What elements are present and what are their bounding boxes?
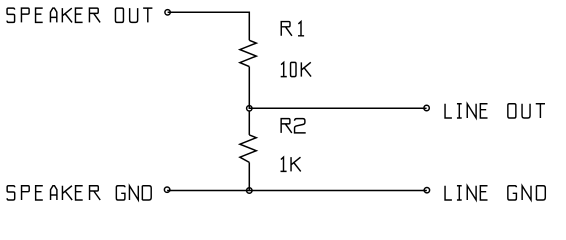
resistor R1 <box>240 40 256 66</box>
terminal SPEAKER OUT <box>165 10 172 15</box>
label LINE OUT <box>445 104 545 118</box>
label 10K <box>281 62 311 76</box>
label LINE GND <box>445 186 545 200</box>
terminal LINE OUT <box>423 105 430 110</box>
label SPEAKER GND <box>7 186 151 200</box>
wire SPEAKER OUT terminal to R1 (right then down) <box>171 12 250 40</box>
label 1K <box>281 157 301 171</box>
wire node A to R2 <box>248 108 250 135</box>
ground wire SPEAKER GND to LINE GND <box>170 190 424 192</box>
wire node A to LINE OUT terminal <box>249 107 423 109</box>
wire R1 to node A <box>248 67 250 109</box>
node B (ground junction) <box>246 187 253 193</box>
node A (R1/R2 junction to line out) <box>247 105 254 111</box>
resistor R2 <box>240 135 256 163</box>
terminal SPEAKER GND <box>164 187 171 192</box>
label R2 <box>281 119 306 133</box>
label SPEAKER OUT <box>7 8 152 22</box>
label R1 <box>281 22 304 36</box>
terminal LINE GND <box>423 187 430 192</box>
wire R2 to ground node <box>248 162 250 190</box>
